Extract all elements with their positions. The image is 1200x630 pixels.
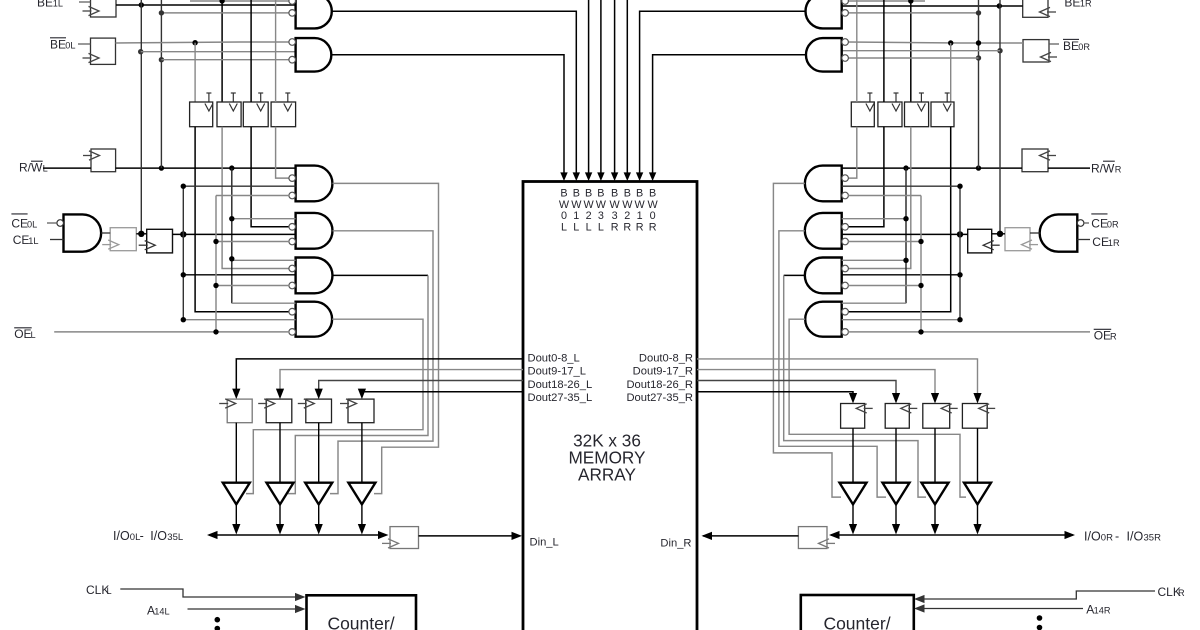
AND gate g3 output-enable byte0	[296, 166, 333, 202]
svg-text:3: 3	[612, 210, 618, 222]
svg-text:CE: CE	[11, 217, 28, 231]
AND gate g1 byte-write BW1L (top cropped)	[296, 0, 332, 28]
wire OEL line	[54, 331, 289, 333]
node CE to g6r junction	[957, 317, 962, 322]
bubble g2 input1	[289, 39, 296, 46]
wire g1 output to memory BW1L	[333, 11, 581, 181]
node OE to g4r junction	[918, 239, 923, 244]
svg-text:35R: 35R	[1144, 533, 1162, 544]
wire R/W vertical to R/WL line	[160, 0, 162, 168]
svg-text:0R: 0R	[1078, 42, 1090, 52]
bubble g4r BE input	[842, 224, 849, 231]
svg-text:1L: 1L	[53, 0, 63, 9]
pin label BW0R	[647, 188, 658, 234]
node CE to g5 junction	[181, 272, 186, 277]
output buffer tri-state 1 right	[840, 483, 867, 505]
wire mid reg3 output to gate g4 bubble	[251, 127, 289, 227]
svg-text:R: R	[1115, 165, 1122, 175]
node OER junction	[918, 329, 923, 334]
wire mid reg1 output to gate g6 bubble	[195, 127, 289, 312]
svg-text:35L: 35L	[167, 532, 183, 543]
wire I/O bus left	[207, 531, 389, 539]
wire buffer3r to I/O bus right	[931, 504, 939, 534]
register output data3 left	[298, 399, 332, 423]
AND gate g4r output-enable byte1 right	[805, 213, 842, 249]
node BE1R row junction	[997, 3, 1002, 8]
wire output register4r to buffer4r	[977, 428, 979, 483]
svg-text:B: B	[573, 188, 580, 200]
wire Din register to memory right	[702, 532, 799, 540]
svg-text:B: B	[560, 188, 567, 200]
AND gate chip-enable left CE	[64, 214, 102, 251]
node BE0L pipeline branch junction	[192, 40, 197, 45]
pin label BW0L	[559, 188, 570, 234]
wire buffer3 to I/O bus left	[315, 504, 323, 534]
register output data3 right	[923, 404, 958, 429]
register output data2 right	[885, 404, 917, 429]
wire buffer1r to I/O bus right	[849, 504, 857, 534]
wire Dout9-17_L to output register2	[276, 370, 523, 400]
AND gate g5 output-enable byte2	[296, 258, 333, 294]
svg-text:W: W	[596, 199, 607, 211]
wire g5r output to buffer3r enable	[784, 275, 926, 497]
pin label BW1R	[634, 188, 645, 234]
svg-text:L: L	[586, 221, 592, 233]
svg-text:I/O: I/O	[1127, 530, 1144, 544]
svg-text:Din_R: Din_R	[660, 538, 691, 550]
wire Dout0-8_R to output register4r	[697, 359, 982, 404]
AND gate g5r output-enable byte2 right	[805, 258, 842, 294]
wire CLKL to counter	[120, 589, 305, 601]
wire output register1 to buffer1	[235, 423, 237, 483]
label I/O0R - I/O35R	[1084, 530, 1161, 544]
wire BE1L vertical to CE chain	[140, 0, 142, 234]
wire CE0R label stub	[1084, 222, 1089, 224]
wire CE reg2 output row to g4	[173, 233, 296, 235]
svg-text:B: B	[636, 188, 643, 200]
wire mid reg4r output to gate g6r bubble	[848, 127, 951, 312]
svg-text:L: L	[31, 330, 36, 340]
bubble CE0R input	[1077, 220, 1084, 227]
svg-text:I/O: I/O	[113, 529, 130, 543]
register BE pipeline stage1 left	[190, 93, 213, 127]
AND gate g4 output-enable byte1	[296, 213, 333, 249]
wire CLKR to counter right	[914, 591, 1155, 603]
node BE1L vertical terminal	[138, 231, 144, 237]
wire plain row into g2r	[842, 50, 1000, 52]
node CE to g5r junction	[957, 272, 962, 277]
node R/W to g4 junction	[229, 216, 234, 221]
label A14L	[147, 604, 170, 618]
wire output register4 to buffer4	[361, 423, 363, 483]
label CLKL	[86, 583, 112, 597]
svg-text:0: 0	[561, 210, 567, 222]
svg-text:W: W	[622, 199, 633, 211]
bubble g6r BE input	[842, 308, 849, 315]
svg-text:R: R	[636, 221, 644, 233]
node CE distribution junction	[180, 231, 186, 237]
svg-text:Dout0-8_L: Dout0-8_L	[528, 353, 580, 365]
pin label BW1L	[571, 188, 582, 234]
svg-text:Dout27-35_L: Dout27-35_L	[528, 392, 593, 404]
bubble g1r input1	[842, 0, 849, 4]
register output data1 left	[219, 399, 252, 423]
wire g4r output to buffer2r enable	[779, 231, 886, 497]
wire output register3r to buffer3r	[934, 428, 936, 483]
register Din input right	[798, 527, 835, 549]
label R/WL with overline on W	[19, 161, 48, 175]
svg-text:0L: 0L	[27, 220, 37, 230]
node R/W row junction right	[976, 10, 981, 15]
wire BE0R row to AND gate g2r bubble1	[848, 42, 1023, 43]
wire CE0L label stub	[47, 222, 57, 224]
svg-text:-: -	[140, 529, 144, 543]
wire row into g1 bubble1	[190, 0, 289, 2]
register BE1R input flip-flop (top cropped)	[1023, 0, 1056, 17]
svg-text:ARRAY: ARRAY	[578, 465, 636, 485]
bubble g5r BE input	[842, 265, 849, 272]
wire g3 output to buffer4 enable	[333, 183, 439, 493]
register CE pipeline1 right	[1005, 228, 1038, 251]
node BE0R pipeline branch junction	[948, 40, 953, 45]
output buffer tri-state 2 right	[883, 483, 910, 505]
bubble g1 input2	[289, 10, 296, 17]
label CE0R with overline	[1091, 214, 1119, 231]
wire CE1R input	[1077, 239, 1090, 241]
wire CE distribution vertical	[183, 186, 295, 320]
svg-text:Counter/: Counter/	[327, 614, 394, 630]
bubble g3 BE input	[289, 175, 296, 182]
svg-text:1: 1	[637, 210, 643, 222]
label OEL with overline	[14, 327, 35, 341]
wire BE1R vertical to CE chain right	[999, 0, 1001, 234]
svg-text:B: B	[611, 188, 618, 200]
svg-text:14L: 14L	[154, 607, 169, 617]
svg-text:I/O: I/O	[150, 529, 167, 543]
bubble g5r OE input	[842, 282, 849, 289]
wire OE distribution vertical	[216, 196, 289, 332]
counter address block right	[801, 595, 914, 630]
svg-text:W: W	[647, 199, 658, 211]
output buffer tri-state 2 left	[267, 483, 294, 505]
register BE pipeline stage4 right	[931, 93, 954, 127]
node BE pipeline branch junction right	[908, 0, 913, 4]
node OEL junction	[213, 329, 218, 334]
svg-text:L: L	[573, 221, 579, 233]
node R/W to g2r bubble branch	[976, 55, 981, 60]
label CE1R	[1092, 235, 1120, 249]
AND gate g3r output-enable byte0 right	[805, 166, 842, 202]
label CLKR	[1158, 585, 1186, 599]
svg-text:OE: OE	[1094, 329, 1111, 343]
svg-text:BE: BE	[1063, 39, 1079, 53]
wire output register2 to buffer2	[279, 423, 281, 483]
svg-text:L: L	[561, 221, 567, 233]
node R/W row junction	[159, 10, 164, 15]
node plain row g2r junction	[997, 48, 1002, 53]
wire output register2r to buffer2r	[895, 428, 897, 483]
wire g4 output to buffer3 enable	[330, 231, 433, 494]
svg-text:1R: 1R	[1080, 0, 1092, 9]
svg-text:Counter/: Counter/	[823, 614, 890, 630]
wire BE0L label to register	[78, 43, 91, 45]
pin label BW2R	[622, 188, 633, 234]
AND gate g6r output-enable byte3 right	[805, 302, 842, 337]
wire OER line	[848, 331, 1090, 333]
AND gate chip-enable right CE	[1040, 214, 1078, 251]
register BE pipeline stage2 left	[217, 93, 241, 127]
svg-text:Dout0-8_R: Dout0-8_R	[639, 353, 693, 365]
wire R/WR line to gate inputs	[842, 167, 1090, 169]
register BE1L input flip-flop (top cropped)	[83, 0, 117, 17]
svg-text:Dout9-17_R: Dout9-17_R	[633, 365, 693, 377]
svg-text:L: L	[598, 221, 604, 233]
wire g3r output to buffer1r enable	[773, 183, 841, 497]
wire BE1L row to AND gate g1	[116, 4, 296, 6]
svg-text:R/W: R/W	[1091, 162, 1115, 176]
label I/O0L- I/O35L	[113, 529, 183, 543]
node R/W to gate2 bubble branch	[159, 57, 164, 62]
node CE to g3 junction	[181, 184, 186, 189]
svg-text:3: 3	[598, 210, 604, 222]
register CE pipeline2 right	[968, 229, 1000, 253]
wire CE1L input	[50, 239, 64, 241]
svg-text:B: B	[624, 188, 631, 200]
label CE1L	[13, 233, 39, 247]
svg-text:1R: 1R	[1108, 238, 1120, 248]
output buffer tri-state 3 right	[922, 483, 949, 505]
node R/W to g5r junction	[903, 258, 908, 263]
bubble g1r input2	[842, 10, 849, 17]
node address ellipsis right	[1037, 615, 1043, 630]
wire mid reg2 output to gate g5 bubble	[222, 127, 289, 269]
svg-text:BE: BE	[37, 0, 53, 10]
svg-text:0L: 0L	[65, 40, 75, 50]
register BE pipeline stage3 left	[243, 93, 268, 127]
wire Dout27-35_R to output register1r	[697, 392, 857, 404]
svg-text:CE: CE	[13, 233, 30, 247]
wire mid register1r input drop	[856, 0, 858, 102]
wire g6r output to buffer4r enable	[789, 319, 966, 497]
svg-text:R/W: R/W	[19, 161, 43, 175]
node plain row g2 junction	[138, 49, 143, 54]
wire R/W distribution vertical right	[842, 168, 906, 303]
wire Dout0-8_L to output register1	[232, 359, 523, 399]
svg-text:I/O: I/O	[1084, 530, 1101, 544]
bubble g1 input1	[289, 0, 296, 4]
node R/W to g5 junction	[229, 256, 234, 261]
wire CE gate to reg1	[101, 232, 110, 234]
svg-text:R: R	[1110, 332, 1117, 342]
register output data4 right	[962, 404, 995, 429]
svg-text:14R: 14R	[1094, 606, 1111, 616]
svg-text:OE: OE	[14, 327, 31, 341]
bubble g5 OE input	[289, 282, 296, 289]
wire R/WL line to gate inputs	[43, 167, 296, 169]
pin label BW3L	[596, 188, 607, 234]
wire CE gate to reg1 right	[1030, 232, 1040, 234]
svg-text:W: W	[634, 199, 645, 211]
wire BE1L label to register	[79, 1, 91, 3]
svg-text:2: 2	[624, 210, 630, 222]
node OE to g5r junction	[918, 283, 923, 288]
register CE pipeline1 left	[102, 228, 136, 251]
svg-text:Dout18-26_R: Dout18-26_R	[626, 379, 693, 391]
node R/WL-BE vertical junction	[159, 165, 164, 170]
wire R/W vertical to R/WR line	[978, 0, 980, 168]
wire row into g2r bubble2	[848, 57, 978, 59]
svg-text:Dout18-26_L: Dout18-26_L	[528, 379, 593, 391]
wire Dout18-26_R to output register2r	[697, 381, 900, 404]
svg-text:B: B	[597, 188, 604, 200]
svg-text:W: W	[583, 199, 594, 211]
svg-text:W: W	[609, 199, 620, 211]
svg-text:B: B	[585, 188, 592, 200]
label A14R	[1086, 603, 1111, 617]
bubble g3r BE input	[842, 175, 849, 182]
wire plain row into g2	[141, 51, 296, 53]
wire Dout9-17_R to output register3r	[697, 370, 939, 404]
wire BE1R row to AND gate g1r	[842, 5, 1023, 7]
svg-text:CE: CE	[1092, 235, 1109, 249]
svg-text:1: 1	[573, 210, 579, 222]
wire OE distribution vertical right	[848, 196, 921, 332]
label R/WR with overline on W	[1091, 161, 1122, 175]
wire BW3R into memory top	[611, 0, 618, 181]
register output data2 left	[258, 399, 292, 423]
register output data4 left	[340, 399, 374, 423]
svg-text:Dout9-17_L: Dout9-17_L	[528, 365, 586, 377]
node address ellipsis left	[215, 617, 221, 630]
label BE0R with overline	[1063, 39, 1090, 53]
wire mid register4r input drop	[950, 43, 952, 102]
wire g1r output to memory BW1R	[636, 11, 805, 181]
svg-text:R: R	[623, 221, 631, 233]
svg-text:CE: CE	[1091, 217, 1108, 231]
wire g6 output to buffer1 enable	[246, 319, 423, 493]
label CE0L with overline	[11, 214, 37, 231]
svg-text:W: W	[571, 199, 582, 211]
wire BE0L row to AND gate g2 bubble1	[116, 42, 290, 43]
wire buffer2r to I/O bus right	[892, 504, 900, 534]
wire row into g2 bubble2	[161, 59, 289, 61]
svg-text:Din_L: Din_L	[530, 537, 559, 549]
AND gate g1r byte-write BW1R (top cropped)	[806, 0, 842, 28]
svg-text:BE: BE	[1064, 0, 1080, 10]
counter address block left	[307, 595, 417, 630]
wire mid reg3r output to gate g5r bubble	[848, 127, 911, 269]
AND gate g2r byte-write BW0R	[806, 38, 842, 72]
node R/WR branch junction	[903, 165, 908, 170]
node R/W to g4r junction	[903, 216, 908, 221]
wire CE reg1 to reg2	[136, 233, 146, 235]
wire mid register3 input drop	[250, 0, 252, 102]
wire A14R to counter right	[914, 604, 1083, 612]
pin label BW3R	[609, 188, 620, 234]
svg-text:R: R	[649, 221, 657, 233]
bubble g6 BE input	[289, 308, 296, 315]
AND gate g6 output-enable byte3	[296, 302, 333, 337]
register output data1 right	[841, 404, 873, 429]
register Din input left	[382, 527, 419, 549]
bubble g2r input1	[842, 39, 849, 46]
wire mid register1 input drop	[194, 43, 196, 102]
bubble CE0L input	[57, 220, 64, 227]
svg-text:-: -	[1115, 530, 1119, 544]
register R/WL input flip-flop	[83, 149, 116, 172]
svg-text:0: 0	[650, 210, 656, 222]
label BE1R	[1064, 0, 1092, 10]
node CE to g3r junction	[957, 184, 962, 189]
wire mid register2 input drop	[221, 1, 223, 102]
node OE to g4 junction	[213, 239, 218, 244]
wire A14L to counter	[188, 605, 306, 613]
node R/WR-BE vertical junction	[976, 165, 981, 170]
output buffer tri-state 4 left	[348, 483, 375, 505]
wire g5 output to buffer2 enable	[288, 275, 428, 493]
wire buffer1 to I/O bus left	[232, 504, 240, 534]
output buffer tri-state 4 right	[964, 483, 991, 505]
wire I/O bus right	[829, 531, 1075, 539]
register BE0R input flip-flop	[1023, 40, 1057, 62]
register CE pipeline2 left	[139, 229, 173, 253]
wire mid reg2r output to gate g4r bubble	[848, 127, 884, 227]
svg-text:BE: BE	[50, 37, 66, 51]
wire mid reg4 output to gate g3 bubble	[276, 127, 290, 178]
svg-text:Dout27-35_R: Dout27-35_R	[626, 392, 693, 404]
label OER with overline	[1094, 329, 1117, 343]
output buffer tri-state 1 left	[223, 483, 250, 505]
svg-text:W: W	[559, 199, 570, 211]
bubble g5 BE input	[289, 265, 296, 272]
node BE0R crossing junction	[976, 40, 981, 45]
bubble g6 OE input	[289, 329, 296, 336]
wire Dout18-26_L to output register3	[315, 381, 523, 400]
svg-text:R: R	[611, 221, 619, 233]
bubble g2r input2	[842, 55, 849, 62]
wire mid register3r input drop	[910, 1, 912, 102]
wire CE reg1 to reg2 right	[992, 233, 1005, 235]
wire BW2R into memory top	[624, 0, 631, 181]
node BE1R vertical terminal	[997, 231, 1003, 237]
register BE0L input flip-flop	[83, 38, 116, 64]
wire output register3 to buffer3	[318, 423, 320, 483]
node R/WL branch junction	[229, 165, 234, 170]
bubble g4 OE input	[289, 238, 296, 245]
wire CE reg2 output row to g4r	[842, 233, 968, 235]
bubble g4 BE input	[289, 224, 296, 231]
svg-text:1L: 1L	[28, 236, 38, 246]
wire buffer4r to I/O bus right	[973, 504, 981, 534]
register BE pipeline stage4 left	[271, 93, 296, 127]
AND gate g2 byte-write BW0L	[296, 38, 332, 72]
node OE to g5 junction	[213, 283, 218, 288]
svg-text:2: 2	[586, 210, 592, 222]
bubble g3 OE input	[289, 192, 296, 199]
label BE0L with overline	[50, 37, 76, 51]
wire row into g1r bubble1	[848, 0, 925, 2]
wire CE distribution vertical right	[842, 186, 960, 320]
svg-text:L: L	[107, 586, 112, 596]
wire BW2L into memory top	[585, 0, 592, 181]
svg-text:R: R	[1178, 588, 1185, 598]
bubble g3r OE input	[842, 192, 849, 199]
register BE pipeline stage3 right	[905, 93, 929, 127]
svg-text:B: B	[649, 188, 656, 200]
wire R/W row into g1r bubble2	[848, 12, 978, 14]
node CE distribution junction right	[957, 231, 963, 237]
wire BW3L into memory top	[597, 0, 604, 181]
